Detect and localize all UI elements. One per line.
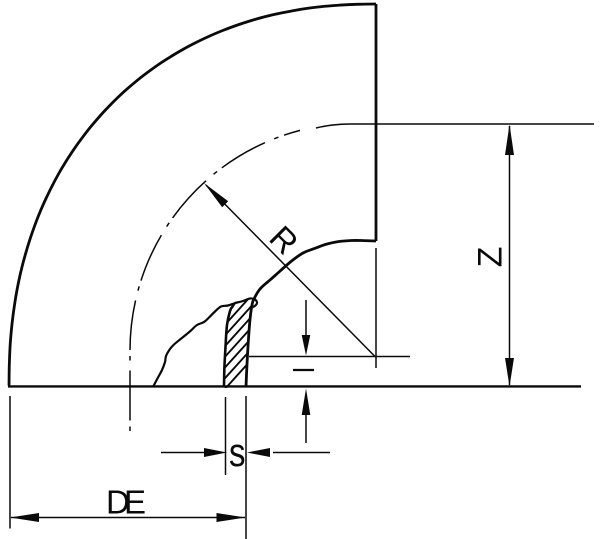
svg-text:s: s: [229, 431, 246, 475]
centerline arc (dash-dot): [130, 130, 300, 431]
svg-text:Z: Z: [472, 247, 510, 268]
outer arc: [9, 4, 376, 386]
small dim down arrow: [305, 300, 307, 338]
s dimension right arrow: [273, 452, 330, 454]
radius line R: [206, 185, 375, 357]
Z bottom arrowhead: [505, 358, 514, 387]
svg-text:DE: DE: [106, 484, 146, 521]
DE dimension line: [11, 517, 245, 519]
wall inner edge (hatch left boundary): [224, 303, 235, 385]
baseline: [8, 385, 581, 387]
DE right arrowhead: [217, 513, 246, 522]
center mark horizontal: [249, 356, 410, 358]
small dim up arrow: [305, 410, 307, 443]
hatch lines: [214, 257, 258, 401]
break line (freehand): [153, 298, 257, 387]
s left extension line: [225, 397, 227, 475]
right face (weld end): [375, 4, 378, 241]
DE left extension line: [9, 396, 11, 529]
s dimension left arrow: [161, 452, 205, 454]
DE left arrowhead: [10, 513, 39, 522]
Z dimension line: [509, 126, 511, 385]
small dim tick: [293, 369, 314, 371]
center mark vertical: [375, 248, 377, 368]
s/DE right extension line: [245, 396, 247, 539]
inner arc: [246, 240, 376, 387]
axis line: [316, 124, 594, 128]
radius arrowhead: [204, 183, 228, 207]
Z top arrowhead: [505, 125, 514, 156]
